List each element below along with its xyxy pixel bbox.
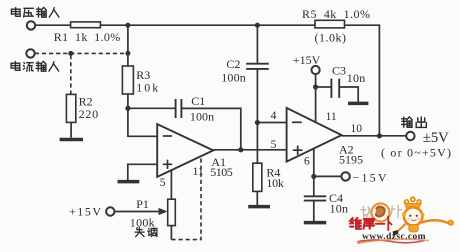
node dashed/R2 [68,51,73,56]
ground below C4 [304,221,326,225]
resistor R2 [66,94,75,122]
wire +15V to A2 pin 11 [315,74,317,122]
wire dashed current input [35,52,126,54]
resistor R1 [71,22,101,28]
svg-text:220: 220 [79,107,99,121]
A1 minus sign [163,135,172,137]
label 电压输入 (voltage input) [11,7,59,17]
wire C2 branch vertical [256,25,258,64]
svg-text:+15V: +15V [293,53,321,67]
label 输出 (output) [402,117,427,128]
terminal -15V [341,172,349,180]
svg-text:R5 4k 1.0%: R5 4k 1.0% [302,7,370,21]
watermark mascot crown [404,197,421,209]
terminal current input [26,49,34,57]
label 电流输入 (current input) [11,61,59,71]
terminal +15V top [312,66,320,74]
capacitor C2 [246,64,269,69]
svg-text:100k: 100k [130,215,155,229]
wire C2 down through pin4 node to R4 [256,69,258,163]
A2 minus sign [292,121,302,123]
svg-text:5: 5 [271,139,277,151]
svg-text:11: 11 [326,111,337,123]
svg-text:( or 0~+5V): ( or 0~+5V) [381,146,451,160]
node output/R5 feedback [377,133,382,138]
wire A1 output to A2 pin5 [213,149,286,151]
watermark mascot body and arms [393,220,454,236]
svg-text:P1: P1 [136,197,149,211]
node +15V/C3 [313,84,318,89]
resistor R4 [253,163,262,191]
svg-text:6: 6 [304,156,310,168]
wire rail down to R3 [127,25,129,66]
ground below R2 [60,138,83,142]
wire A1 pin5 to P1 [170,170,172,199]
wire rail R5 to right corner, down to output node [345,25,380,136]
capacitor C1 [176,99,182,118]
wire dashed trim return [171,156,201,240]
A1 plus sign [163,160,172,169]
svg-text:10k: 10k [136,81,158,95]
wire A2 output to output terminal [342,135,407,137]
op-amp A2 [287,108,342,162]
wire R3 bottom to A1 inverting input [128,94,157,136]
svg-text:11: 11 [193,166,204,178]
wire pin 4 to A2 [257,122,286,124]
watermark gray char 片 [390,206,402,218]
node pin4/C2/R4 [255,120,260,125]
capacitor C4 [304,196,326,200]
svg-text:5195: 5195 [339,152,363,166]
ground at A1 + input [118,180,140,184]
terminal voltage input [27,21,35,29]
potentiometer P1 [168,199,176,225]
wire C1 to A1 output node [181,108,240,149]
resistor R5 [315,20,345,28]
node junction rail/R3 [125,23,130,28]
svg-text:10k: 10k [266,176,284,190]
node A1 output / C1 [238,147,243,152]
wire A1 noninverting input to ground [128,164,157,181]
wire main rail R1 to R5 [100,24,315,26]
svg-text:5105: 5105 [210,165,233,179]
wire dashed R2 drop [70,55,72,94]
svg-text:+15V: +15V [69,204,101,218]
wire node to C3 [316,86,332,88]
terminal +15V bottom [106,207,114,215]
svg-text:C3: C3 [332,63,346,77]
svg-text:10: 10 [351,123,363,135]
node dashed joins R3 branch [125,51,130,56]
svg-text:10n: 10n [347,71,366,85]
svg-text:C2: C2 [226,57,240,71]
label 失调 (offset) [135,227,157,236]
wiper arrow [159,208,168,215]
watermark badge circle [372,204,390,222]
watermark red 维库一下 [350,217,391,231]
svg-text:4: 4 [271,110,277,122]
wire C4 to ground [313,201,315,221]
watermark mascot head [402,207,425,225]
node junction rail/C2 [255,23,260,28]
resistor R3 [122,66,133,94]
A2 plus sign [293,146,303,155]
svg-text:100n: 100n [221,71,245,85]
op-amp A1 [157,124,213,177]
wire node to C1 [128,107,176,109]
terminal output [406,132,414,140]
svg-text:5: 5 [160,177,166,189]
svg-text:R1 1k 1.0%: R1 1k 1.0% [54,30,120,44]
watermark underline wave [358,240,425,243]
wire A2 pin6 down [313,148,315,196]
svg-text:100n: 100n [190,109,214,123]
wire C3 to ground [339,87,358,102]
wire node to -15V terminal [314,175,342,177]
node pin6/C4/-15V [311,174,316,179]
svg-text:C1: C1 [191,94,205,108]
capacitor C3 [331,79,339,98]
svg-text:±5V: ±5V [423,130,449,146]
watermark gray char 找 [361,207,372,217]
wire R2 to ground [70,122,72,137]
wire T1 to R1 [35,24,70,26]
wire P1 bottom [170,226,172,240]
ground at C3 [348,102,368,106]
svg-text:−15V: −15V [353,170,387,184]
ground below R4 [248,205,270,209]
wire R4 to ground [256,191,258,205]
wire +15V to wiper [115,211,159,213]
node R3/C1/A1- [125,106,130,111]
svg-text:(1.0k): (1.0k) [315,31,347,45]
svg-text:10n: 10n [330,201,349,215]
